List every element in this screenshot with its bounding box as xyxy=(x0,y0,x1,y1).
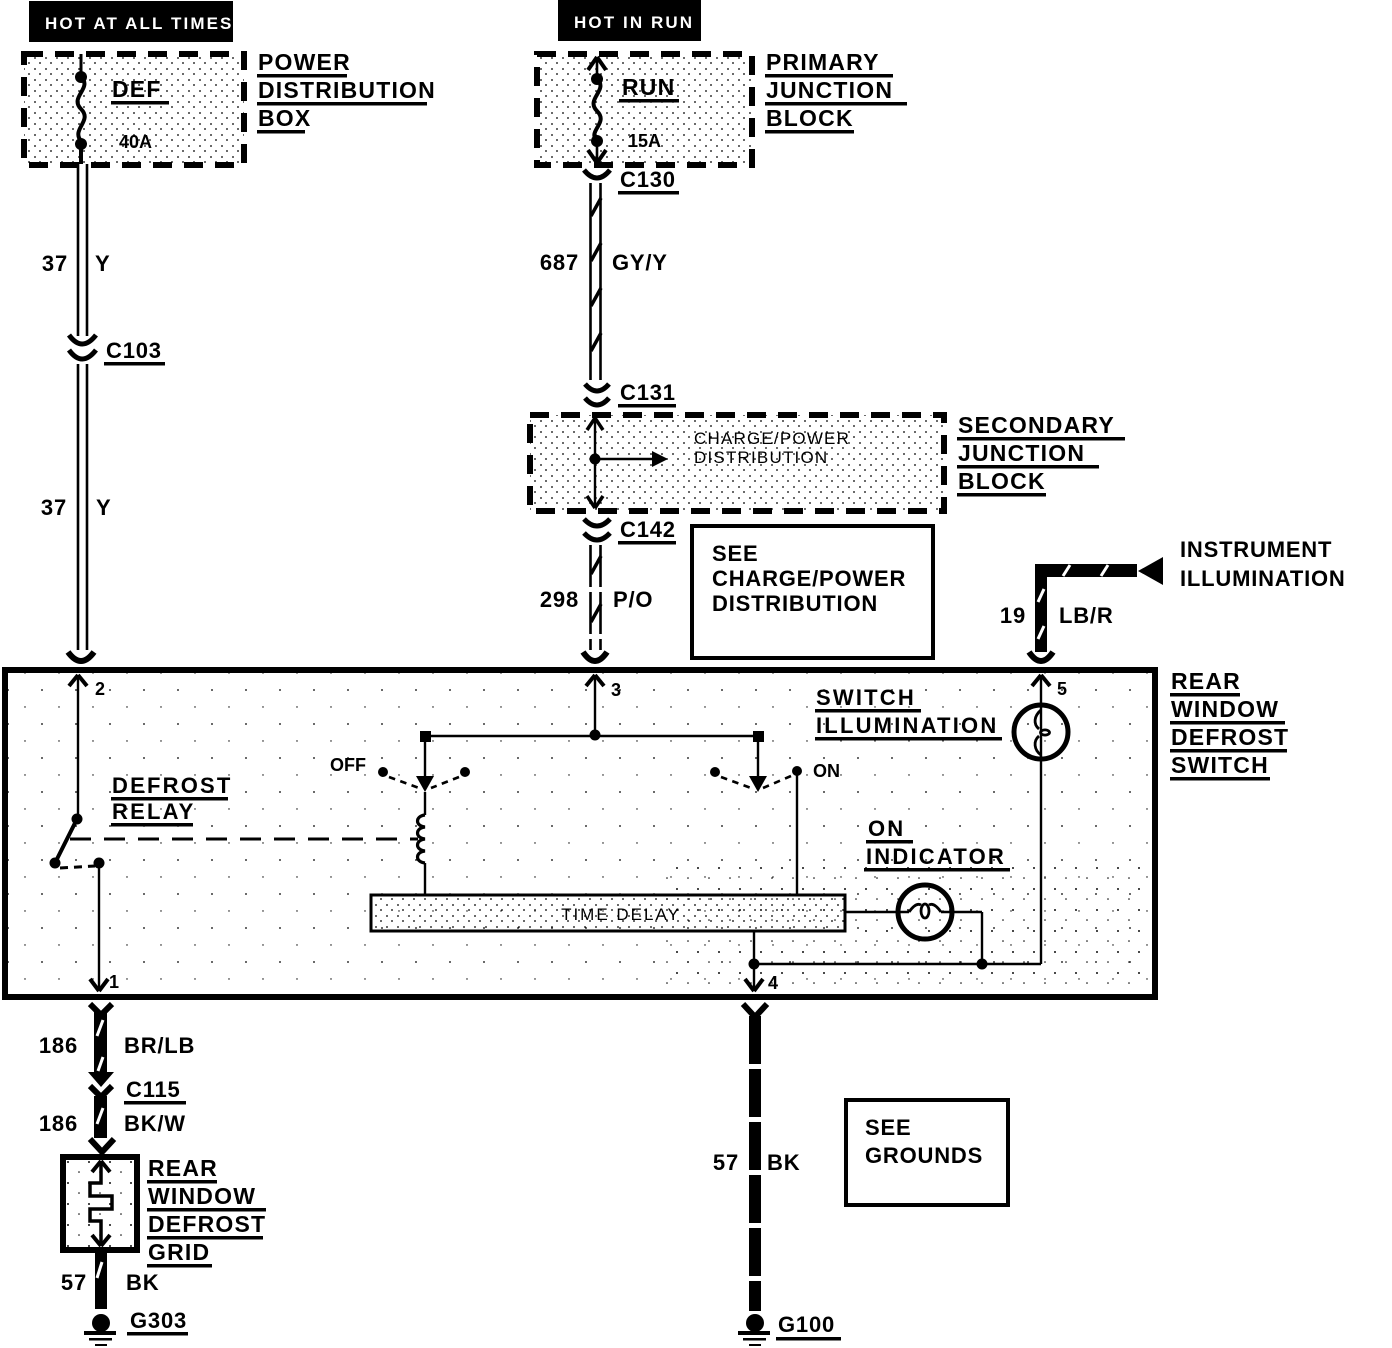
svg-text:SWITCH: SWITCH xyxy=(1171,752,1269,778)
power distribution box xyxy=(24,54,244,165)
svg-text:37: 37 xyxy=(42,251,68,276)
svg-text:37: 37 xyxy=(41,495,67,520)
label HOT IN RUN xyxy=(558,0,701,41)
svg-text:G100: G100 xyxy=(778,1312,835,1337)
svg-text:ON: ON xyxy=(813,761,840,781)
label HOT AT ALL TIMES xyxy=(29,1,233,42)
svg-text:DEFROST: DEFROST xyxy=(112,773,233,798)
defrost relay xyxy=(50,773,419,869)
svg-text:3: 3 xyxy=(611,680,621,700)
connector below pin 4 xyxy=(743,1004,767,1017)
node pin 3 xyxy=(586,675,621,735)
svg-text:Y: Y xyxy=(96,495,111,520)
connector C142 xyxy=(584,517,676,545)
svg-text:BK: BK xyxy=(767,1150,800,1175)
rear window defrost switch box xyxy=(5,670,1155,997)
svg-text:DISTRIBUTION: DISTRIBUTION xyxy=(712,591,878,616)
connector at switch pin 5 xyxy=(1029,652,1053,661)
svg-text:186: 186 xyxy=(39,1111,78,1136)
label POWER DISTRIBUTION BOX xyxy=(257,49,436,134)
wire 37 Y upper segment xyxy=(42,164,111,336)
svg-text:BK/W: BK/W xyxy=(124,1111,186,1136)
label REAR WINDOW DEFROST GRID xyxy=(147,1155,266,1268)
connector at switch pin 3 xyxy=(583,652,607,661)
svg-text:HOT AT ALL TIMES: HOT AT ALL TIMES xyxy=(45,14,233,33)
ground G303 xyxy=(84,1308,188,1346)
connector at switch pin 2 xyxy=(68,652,94,661)
svg-text:DISTRIBUTION: DISTRIBUTION xyxy=(694,448,828,467)
svg-text:SEE: SEE xyxy=(712,541,758,566)
svg-text:BLOCK: BLOCK xyxy=(958,468,1046,494)
connector C103 xyxy=(69,335,165,366)
svg-text:ON: ON xyxy=(868,816,905,841)
wire 186 BR/LB xyxy=(39,1012,195,1074)
fuse RUN 15A xyxy=(588,57,679,163)
node pin 4 xyxy=(745,931,778,993)
svg-text:G303: G303 xyxy=(130,1308,187,1333)
svg-text:C131: C131 xyxy=(620,380,676,405)
svg-text:GROUNDS: GROUNDS xyxy=(865,1143,983,1168)
ground G100 xyxy=(738,1312,841,1346)
svg-text:JUNCTION: JUNCTION xyxy=(958,440,1085,466)
svg-text:40A: 40A xyxy=(119,132,152,152)
svg-text:GRID: GRID xyxy=(148,1239,210,1265)
svg-text:SECONDARY: SECONDARY xyxy=(958,412,1115,438)
svg-text:JUNCTION: JUNCTION xyxy=(766,77,893,103)
svg-text:SEE: SEE xyxy=(865,1115,911,1140)
fuse DEF 40A xyxy=(75,54,169,164)
node pin 5 xyxy=(1032,675,1067,705)
svg-text:WINDOW: WINDOW xyxy=(1171,696,1279,722)
switch ON contact xyxy=(710,736,840,792)
svg-text:SWITCH: SWITCH xyxy=(816,685,916,710)
node pin 1 xyxy=(90,863,119,992)
connector C131 xyxy=(585,380,676,408)
label REAR WINDOW DEFROST SWITCH xyxy=(1170,668,1289,781)
time delay module xyxy=(371,895,845,931)
wire bottom bus pin4 to lamp branch xyxy=(754,959,1041,970)
svg-text:POWER: POWER xyxy=(258,49,351,75)
wire internal bus to pin 3 xyxy=(420,730,764,743)
secondary junction block xyxy=(530,415,944,511)
wire 57 BK right dashed xyxy=(713,1016,800,1311)
connector C130 xyxy=(584,167,679,195)
svg-text:C103: C103 xyxy=(106,338,162,363)
svg-text:C142: C142 xyxy=(620,517,676,542)
svg-text:298: 298 xyxy=(540,587,579,612)
wire 186 BK/W xyxy=(39,1096,186,1138)
label PRIMARY JUNCTION BLOCK xyxy=(765,49,907,134)
svg-text:4: 4 xyxy=(768,973,778,993)
svg-text:C130: C130 xyxy=(620,167,676,192)
rear window defrost grid xyxy=(63,1157,137,1250)
svg-text:PRIMARY: PRIMARY xyxy=(766,49,880,75)
svg-text:57: 57 xyxy=(713,1150,739,1175)
svg-text:HOT IN RUN: HOT IN RUN xyxy=(574,13,694,32)
svg-text:BOX: BOX xyxy=(258,105,311,131)
svg-text:57: 57 xyxy=(61,1270,87,1295)
svg-text:DEFROST: DEFROST xyxy=(148,1211,266,1237)
svg-text:OFF: OFF xyxy=(330,755,366,775)
primary junction block xyxy=(537,54,752,165)
note box SEE CHARGE/POWER DISTRIBUTION xyxy=(692,526,933,658)
svg-text:Y: Y xyxy=(95,251,110,276)
connector above defrost grid xyxy=(90,1139,114,1152)
svg-text:INSTRUMENT: INSTRUMENT xyxy=(1180,537,1332,562)
instrument illumination feed wire 19 LB/R xyxy=(1000,537,1346,652)
svg-text:INDICATOR: INDICATOR xyxy=(866,844,1006,869)
svg-text:TIME DELAY: TIME DELAY xyxy=(561,905,681,924)
wire ON contact to time delay xyxy=(796,771,798,895)
svg-text:DEFROST: DEFROST xyxy=(1171,724,1289,750)
svg-text:RUN: RUN xyxy=(622,74,675,100)
svg-text:BR/LB: BR/LB xyxy=(124,1033,195,1058)
wire 37 Y lower segment xyxy=(41,364,112,650)
svg-text:15A: 15A xyxy=(628,131,661,151)
wire 687 GY/Y xyxy=(540,183,668,380)
switch OFF contact xyxy=(330,736,470,792)
svg-text:DEF: DEF xyxy=(112,76,162,102)
node pin 2 xyxy=(69,675,105,818)
relay coil xyxy=(418,792,426,895)
svg-text:BLOCK: BLOCK xyxy=(766,105,854,131)
svg-text:19: 19 xyxy=(1000,603,1026,628)
svg-text:1: 1 xyxy=(109,972,119,992)
connector below pin 1 xyxy=(90,1004,112,1015)
svg-text:ILLUMINATION: ILLUMINATION xyxy=(816,713,998,738)
svg-text:REAR: REAR xyxy=(1171,668,1241,694)
svg-text:DISTRIBUTION: DISTRIBUTION xyxy=(258,77,436,103)
wire 57 BK left xyxy=(61,1250,159,1309)
svg-text:5: 5 xyxy=(1057,679,1067,699)
svg-text:RELAY: RELAY xyxy=(112,799,196,824)
svg-text:WINDOW: WINDOW xyxy=(148,1183,256,1209)
svg-text:GY/Y: GY/Y xyxy=(612,250,668,275)
svg-text:2: 2 xyxy=(95,679,105,699)
label SECONDARY JUNCTION BLOCK xyxy=(957,412,1125,497)
lamp switch illumination xyxy=(815,685,1068,964)
svg-text:BK: BK xyxy=(126,1270,159,1295)
note box SEE GROUNDS xyxy=(846,1100,1008,1205)
connector C115 xyxy=(88,1072,186,1105)
svg-text:CHARGE/POWER: CHARGE/POWER xyxy=(712,566,906,591)
svg-text:CHARGE/POWER: CHARGE/POWER xyxy=(694,429,850,448)
svg-text:ILLUMINATION: ILLUMINATION xyxy=(1180,566,1346,591)
svg-text:C115: C115 xyxy=(126,1077,181,1102)
lamp ON indicator xyxy=(845,816,1010,964)
svg-text:REAR: REAR xyxy=(148,1155,218,1181)
wire 298 P/O xyxy=(540,545,653,650)
svg-text:186: 186 xyxy=(39,1033,78,1058)
svg-text:P/O: P/O xyxy=(613,587,653,612)
svg-text:LB/R: LB/R xyxy=(1059,603,1114,628)
svg-text:687: 687 xyxy=(540,250,579,275)
